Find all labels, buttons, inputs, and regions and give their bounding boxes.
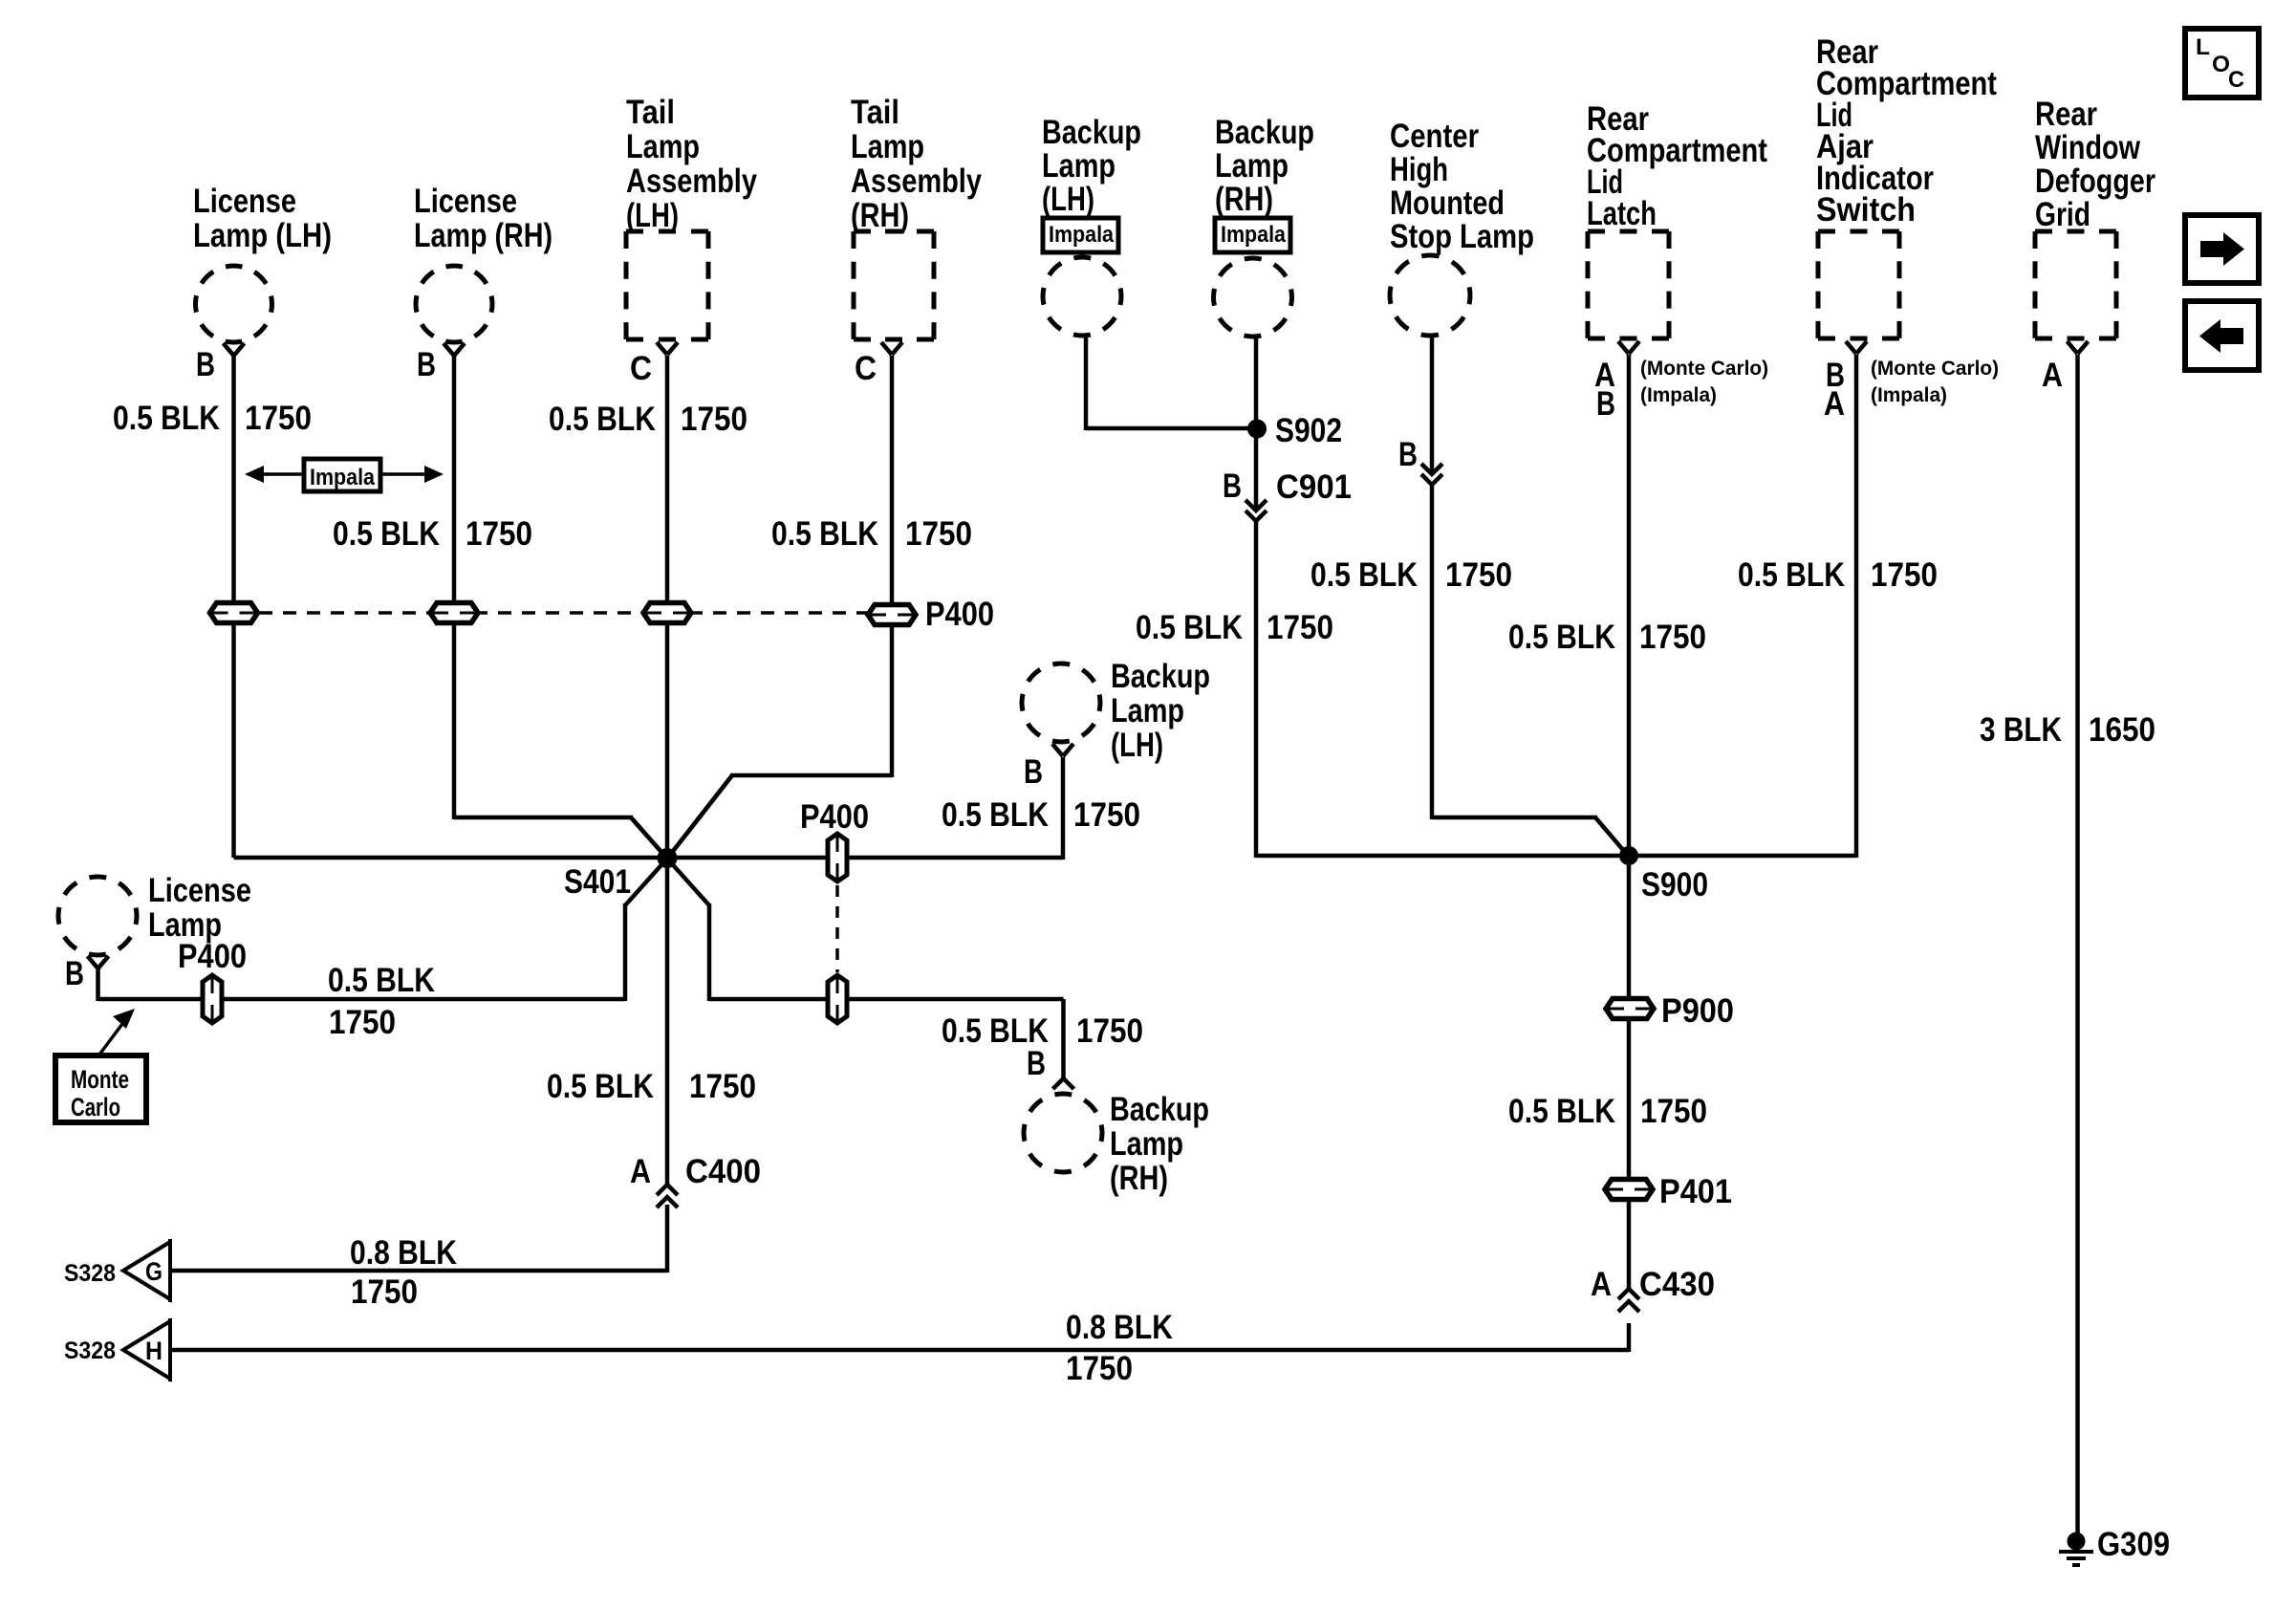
rear compartment lid latch symbol (dashed box) (1588, 231, 1669, 338)
svg-text:(Impala): (Impala) (1640, 384, 1717, 406)
svg-text:S900: S900 (1641, 866, 1708, 903)
next-page arrow (2200, 241, 2224, 257)
svg-text:A: A (2042, 357, 2063, 394)
svg-text:0.5 BLK: 0.5 BLK (1738, 556, 1845, 594)
svg-text:0.5 BLK: 0.5 BLK (942, 796, 1049, 834)
svg-text:C: C (630, 350, 652, 387)
svg-text:Assembly: Assembly (851, 163, 982, 200)
svg-text:3 BLK: 3 BLK (1980, 711, 2062, 749)
wire Rear Compartment Lid Latch through S900 to C430 (vertical) (1627, 355, 1632, 1291)
svg-text:1750: 1750 (1639, 619, 1706, 656)
svg-text:C901: C901 (1276, 468, 1352, 506)
svg-text:S401: S401 (564, 863, 631, 901)
svg-text:1750: 1750 (1445, 556, 1512, 594)
svg-text:B: B (196, 346, 215, 383)
stop lamp inline connector chevrons (1421, 464, 1442, 474)
tail lamp LH pin fork (657, 342, 667, 355)
svg-text:(LH): (LH) (626, 197, 679, 234)
svg-text:C400: C400 (685, 1153, 761, 1190)
wire License Lamp RH pin B down (vertical) (452, 356, 457, 819)
wire C901 corner into S900 (horizontal) (1256, 854, 1629, 859)
svg-text:B: B (1027, 1045, 1046, 1082)
wire C430 corner to S328-H (horizontal 0.8 BLK) (170, 1348, 1629, 1353)
junction splice S900 (1619, 846, 1638, 865)
svg-text:Window: Window (2035, 129, 2141, 166)
connector C400 chevrons (657, 1185, 678, 1195)
svg-text:Impala: Impala (1049, 222, 1115, 248)
svg-text:L: L (2196, 34, 2210, 60)
grommet P900 on latch ground wire (1606, 999, 1654, 1019)
svg-text:G: G (145, 1257, 162, 1286)
svg-text:B: B (1398, 436, 1418, 473)
junction splice S401 (658, 848, 678, 868)
svg-text:0.5 BLK: 0.5 BLK (328, 962, 435, 999)
svg-text:1750: 1750 (1076, 1012, 1143, 1050)
svg-text:Lamp: Lamp (626, 128, 700, 165)
svg-text:Monte: Monte (71, 1065, 129, 1094)
svg-text:P400: P400 (800, 798, 869, 836)
svg-text:1750: 1750 (329, 1004, 396, 1041)
backup lamp LH Impala tag box (1043, 218, 1118, 252)
wire Backup Lamp LH mid pin B (vertical) (1061, 757, 1066, 859)
wire Stop Lamp diagonal into S900 (1595, 817, 1629, 857)
svg-text:Mounted: Mounted (1390, 185, 1505, 222)
wire License Lamp RH horizontal (454, 816, 633, 820)
svg-text:Lamp: Lamp (1215, 147, 1289, 185)
svg-text:(Impala): (Impala) (1871, 384, 1947, 406)
grommet P400 on License LH wire (210, 603, 258, 623)
svg-text:1750: 1750 (245, 400, 312, 437)
svg-text:Backup: Backup (1110, 1091, 1209, 1128)
junction splice S902 (1247, 420, 1267, 439)
svg-text:1650: 1650 (2089, 711, 2155, 749)
svg-text:Rear: Rear (2035, 96, 2097, 133)
svg-text:S328: S328 (64, 1338, 116, 1364)
license lamp LH symbol (dashed circle) (196, 266, 272, 342)
wire Rear Window Defogger Grid to G309 (vertical 3 BLK) (2075, 355, 2080, 1534)
svg-text:1750: 1750 (681, 401, 747, 438)
license lamp RH pin fork (444, 343, 454, 356)
LOC page box (2185, 29, 2259, 98)
wire Lid Ajar Switch horizontal into S900 (1629, 854, 1856, 859)
svg-text:(RH): (RH) (1110, 1160, 1168, 1197)
svg-text:0.5 BLK: 0.5 BLK (113, 400, 220, 437)
svg-text:Backup: Backup (1111, 658, 1210, 695)
wire Tail Lamp RH diagonal into S401 (667, 775, 732, 859)
next-page arrow box (2185, 215, 2259, 283)
svg-text:1750: 1750 (1066, 1350, 1133, 1387)
svg-text:0.5 BLK: 0.5 BLK (771, 515, 878, 553)
svg-text:1750: 1750 (689, 1068, 756, 1105)
connector C901 chevrons (1245, 500, 1267, 511)
backup lamp LH mid symbol (dashed circle) (1022, 664, 1100, 742)
svg-text:(RH): (RH) (851, 197, 909, 234)
svg-text:1750: 1750 (1073, 796, 1140, 834)
wire License Lamp LH horizontal into S401 (234, 856, 668, 860)
svg-text:B: B (1596, 385, 1615, 423)
svg-text:Defogger: Defogger (2035, 163, 2155, 200)
svg-text:H: H (145, 1337, 162, 1365)
wire Tail Lamp RH horizontal (730, 773, 892, 778)
grommet P400 on Backup RH mid wire (828, 975, 847, 1023)
wire Center High Mounted Stop Lamp down (vertical) (1430, 337, 1435, 474)
wire S401 SW diagonal (625, 859, 667, 905)
wire SW diagonal to Monte Carlo lamp (vertical) (623, 903, 628, 1001)
svg-text:C: C (2228, 67, 2244, 93)
Impala variant callout box (304, 459, 380, 491)
svg-text:Carlo: Carlo (71, 1093, 120, 1121)
wire License Lamp RH diagonal into S401 (631, 817, 667, 859)
backup lamp RH mid pin fork (1053, 1078, 1064, 1089)
svg-text:License: License (148, 872, 251, 909)
svg-text:Latch: Latch (1587, 195, 1657, 232)
wire Lid Ajar Indicator Switch down (vertical) (1854, 355, 1859, 858)
Impala variant double arrow (250, 472, 438, 476)
wire Backup Lamp RH (Impala) through S902 to C901 (vertical) (1254, 335, 1259, 511)
grommet P400 on Monte Carlo lamp wire (203, 975, 222, 1023)
grommet P400 on License RH wire (430, 603, 478, 623)
svg-text:B: B (65, 955, 84, 992)
license lamp MC pin fork (88, 956, 98, 968)
svg-text:P400: P400 (925, 596, 994, 633)
tail lamp RH pin fork (881, 342, 892, 355)
svg-text:0.5 BLK: 0.5 BLK (547, 1068, 654, 1105)
svg-text:1750: 1750 (1871, 556, 1938, 594)
wire C430 to corner (vertical) (1627, 1323, 1632, 1352)
svg-text:1750: 1750 (466, 515, 532, 553)
wire C901 down to corner (vertical) (1254, 521, 1259, 858)
svg-text:Grid: Grid (2035, 196, 2090, 233)
off-page connector S328 G triangle (123, 1242, 170, 1299)
svg-text:(Monte Carlo): (Monte Carlo) (1871, 358, 1999, 380)
center high mounted stop lamp symbol (dashed circle) (1390, 255, 1470, 336)
connector C430 chevrons (1618, 1289, 1639, 1299)
svg-text:0.5 BLK: 0.5 BLK (1508, 1093, 1615, 1130)
svg-text:1750: 1750 (905, 515, 972, 553)
wire Backup Lamp LH (Impala) down (vertical) (1084, 334, 1089, 430)
svg-text:Lamp (LH): Lamp (LH) (193, 217, 332, 254)
svg-text:Assembly: Assembly (626, 163, 757, 200)
svg-text:Lamp (RH): Lamp (RH) (414, 217, 552, 254)
wire Tail Lamp LH pin C to S401 (vertical) (665, 356, 670, 858)
prev-page arrow box (2185, 301, 2259, 370)
license lamp RH symbol (dashed circle) (416, 266, 492, 342)
svg-text:A: A (1591, 1266, 1612, 1303)
svg-text:Tail: Tail (851, 94, 899, 131)
svg-text:Lamp: Lamp (148, 906, 222, 944)
grommet P400 on Tail RH wire (868, 605, 916, 625)
ajar switch pin fork (1846, 341, 1856, 354)
wire Stop Lamp below chevrons (vertical) (1430, 485, 1435, 819)
svg-text:C430: C430 (1639, 1266, 1715, 1303)
svg-text:Center: Center (1390, 118, 1479, 155)
dashed grommet link line P400 pair (835, 885, 839, 972)
svg-text:0.5 BLK: 0.5 BLK (1136, 609, 1243, 646)
wire Backup Lamp RH mid drop (vertical) (1061, 999, 1066, 1078)
wire to Backup Lamp RH mid (horizontal 0.5 BLK) (709, 997, 1064, 1002)
ground G309 symbol (2059, 1550, 2093, 1554)
svg-text:Lamp: Lamp (851, 128, 924, 165)
wire S401 east to Backup Lamp LH mid (horizontal) (667, 856, 1063, 860)
wire S401 NE diagonal (667, 775, 732, 859)
svg-text:G309: G309 (2097, 1526, 2170, 1563)
wire C400 corner to S328-G (horizontal 0.8 BLK) (170, 1269, 667, 1273)
svg-text:S902: S902 (1275, 412, 1342, 449)
wire Tail Lamp RH pin C down (vertical) (890, 356, 895, 777)
svg-text:0.8 BLK: 0.8 BLK (350, 1234, 457, 1272)
svg-text:High: High (1390, 151, 1448, 188)
wire Monte Carlo License Lamp pin B (vertical) (96, 968, 100, 1001)
wire Monte Carlo License Lamp horizontal (0.5 BLK) (98, 997, 626, 1002)
wire C400 to corner (vertical) (665, 1205, 670, 1273)
svg-text:0.5 BLK: 0.5 BLK (549, 401, 656, 438)
svg-text:Tail: Tail (626, 94, 675, 131)
latch pin fork (1618, 341, 1629, 354)
svg-text:B: B (417, 346, 436, 383)
lid ajar indicator switch symbol (dashed box) (1818, 231, 1899, 338)
svg-text:0.5 BLK: 0.5 BLK (333, 515, 440, 553)
license lamp Monte Carlo symbol (dashed circle) (58, 877, 137, 955)
svg-text:A: A (630, 1153, 651, 1190)
defogger pin fork (2068, 341, 2078, 354)
svg-text:1750: 1750 (351, 1273, 418, 1311)
svg-text:0.5 BLK: 0.5 BLK (942, 1012, 1049, 1050)
svg-text:License: License (414, 183, 517, 220)
prev-page arrow (2220, 328, 2243, 344)
svg-text:Switch: Switch (1816, 191, 1916, 228)
rear window defogger grid symbol (dashed box) (2035, 231, 2116, 338)
svg-text:Impala: Impala (310, 465, 376, 490)
svg-text:(LH): (LH) (1042, 181, 1094, 218)
license lamp LH pin fork (224, 343, 234, 356)
backup lamp RH Impala tag box (1215, 218, 1290, 252)
backup lamp RH Impala symbol (dashed circle) (1214, 258, 1292, 337)
wire Backup Lamp LH (Impala) horizontal into S902 (1086, 426, 1257, 431)
grommet P400 on S401 east wire (828, 834, 847, 881)
tail lamp assembly LH symbol (dashed box) (626, 231, 708, 339)
off-page connector S328 H triangle (123, 1321, 170, 1379)
wire S401 down to C400 (vertical) (665, 858, 670, 1186)
svg-text:P900: P900 (1661, 992, 1734, 1030)
svg-text:Lamp: Lamp (1110, 1125, 1183, 1163)
wire S401 SE diagonal (667, 859, 709, 905)
svg-text:Lamp: Lamp (1042, 147, 1116, 185)
svg-text:Backup: Backup (1042, 114, 1141, 151)
ground G309 dot (2068, 1533, 2086, 1551)
svg-text:B: B (1223, 468, 1242, 505)
svg-text:P401: P401 (1659, 1173, 1732, 1210)
wire SE diagonal down (vertical) (707, 903, 712, 1001)
svg-text:B: B (1024, 753, 1043, 791)
wire License Lamp LH pin B to S401 (vertical) (231, 356, 236, 858)
svg-text:(LH): (LH) (1111, 727, 1163, 764)
svg-text:S328: S328 (64, 1260, 116, 1287)
Monte Carlo callout box (55, 1055, 146, 1122)
backup lamp RH mid symbol (dashed circle) (1024, 1094, 1102, 1172)
svg-text:Lamp: Lamp (1111, 692, 1184, 729)
svg-text:0.8 BLK: 0.8 BLK (1066, 1309, 1173, 1346)
svg-text:1750: 1750 (1267, 609, 1333, 646)
svg-text:License: License (193, 183, 296, 220)
grommet P400 on Tail LH wire (643, 603, 691, 623)
svg-text:Backup: Backup (1215, 114, 1314, 151)
backup lamp LH Impala symbol (dashed circle) (1043, 257, 1121, 336)
svg-text:0.5 BLK: 0.5 BLK (1508, 619, 1615, 656)
svg-text:(RH): (RH) (1215, 181, 1273, 218)
svg-text:0.5 BLK: 0.5 BLK (1310, 556, 1418, 594)
svg-text:C: C (855, 350, 877, 387)
svg-text:Stop Lamp: Stop Lamp (1390, 218, 1534, 255)
svg-text:(Monte Carlo): (Monte Carlo) (1640, 358, 1768, 380)
svg-text:1750: 1750 (1640, 1093, 1707, 1130)
wire Stop Lamp horizontal (1432, 816, 1597, 820)
backup lamp LH mid pin fork (1052, 744, 1063, 756)
Monte Carlo callout arrow (99, 1016, 128, 1055)
svg-text:Impala: Impala (1221, 222, 1287, 248)
dashed grommet link line P400 row (235, 611, 892, 615)
grommet P401 on latch ground wire (1605, 1180, 1653, 1200)
wire S401 NW diagonal (631, 817, 667, 859)
svg-text:A: A (1824, 385, 1845, 423)
tail lamp assembly RH symbol (dashed box) (854, 231, 934, 339)
